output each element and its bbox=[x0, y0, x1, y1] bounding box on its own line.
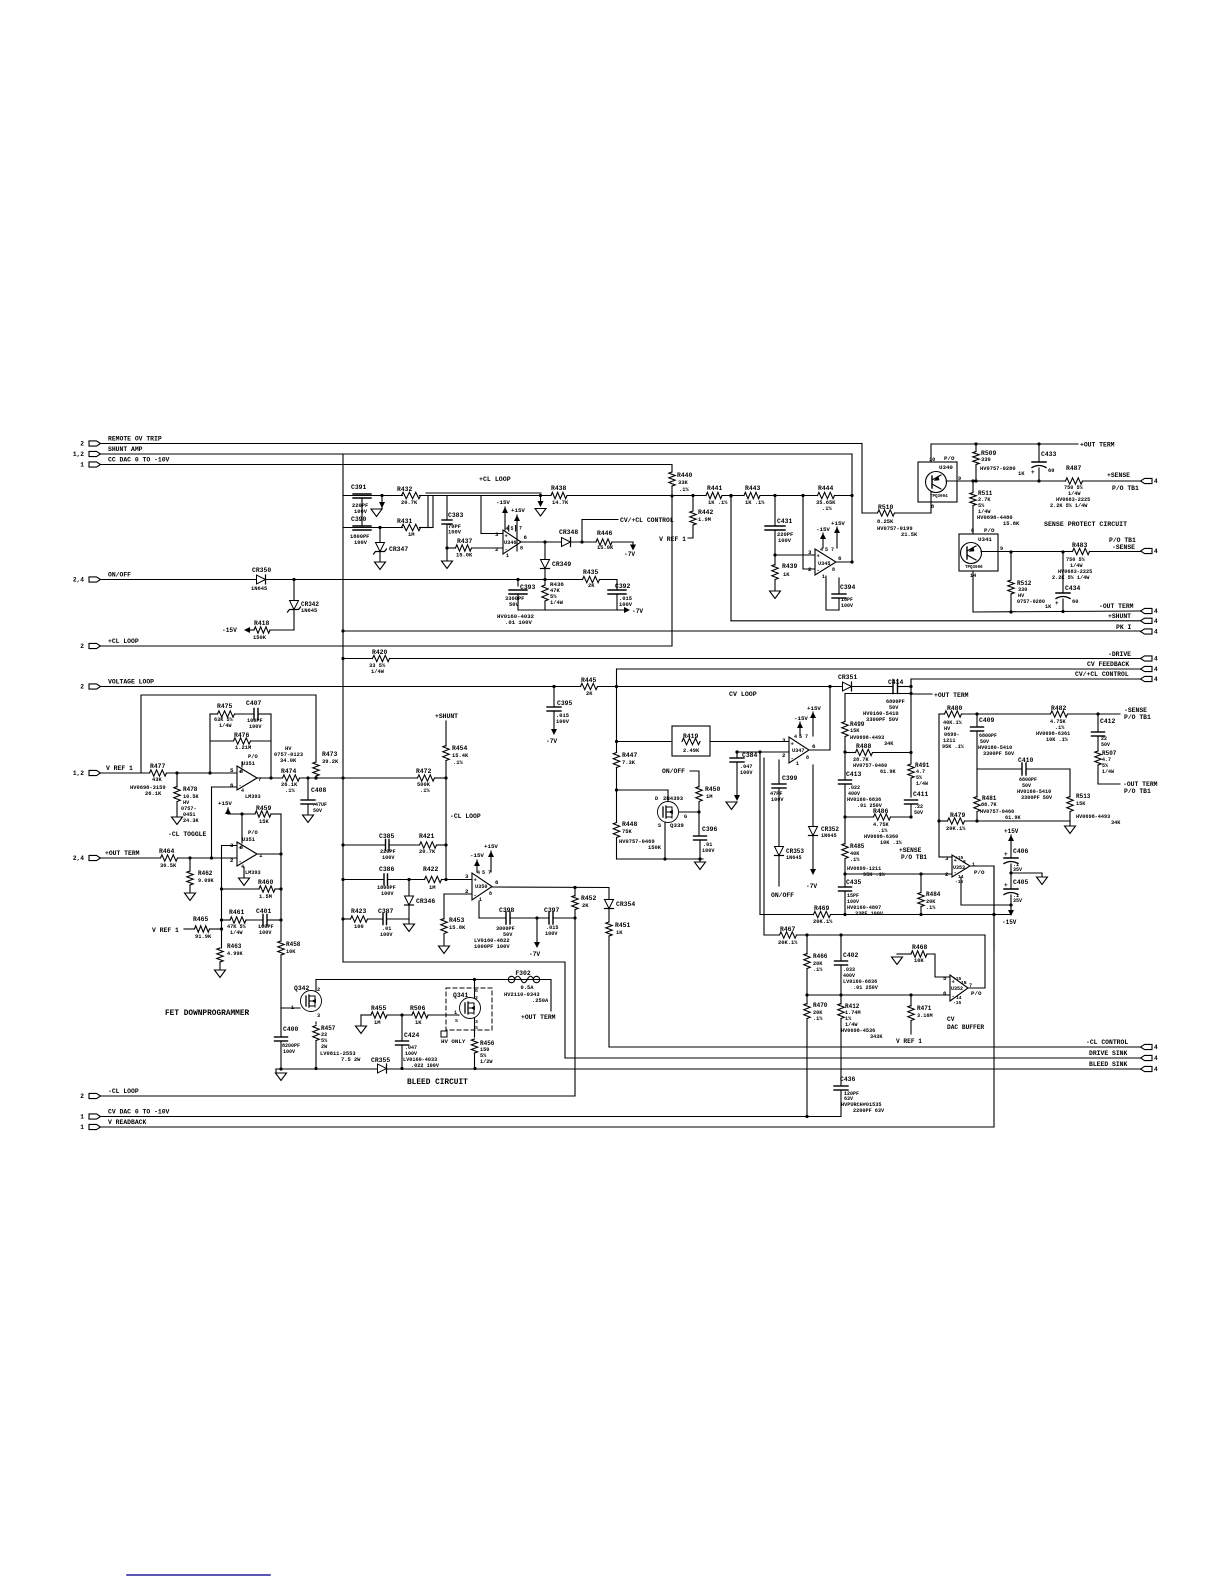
svg-text:1/4W: 1/4W bbox=[1102, 769, 1114, 775]
svg-text:R441: R441 bbox=[707, 485, 723, 492]
svg-text:-: - bbox=[952, 993, 955, 1000]
svg-text:7: 7 bbox=[805, 734, 808, 740]
svg-text:343K: 343K bbox=[870, 1034, 883, 1040]
svg-text:CR347: CR347 bbox=[389, 546, 408, 553]
svg-text:330: 330 bbox=[981, 457, 991, 463]
svg-text:9.09K: 9.09K bbox=[198, 878, 214, 884]
svg-text:REMOTE OV TRIP: REMOTE OV TRIP bbox=[108, 436, 162, 443]
svg-text:4: 4 bbox=[1154, 666, 1158, 673]
svg-text:10K: 10K bbox=[286, 949, 296, 955]
svg-text:R466: R466 bbox=[813, 953, 828, 960]
svg-text:R511: R511 bbox=[978, 490, 993, 497]
svg-text:2: 2 bbox=[80, 684, 84, 691]
svg-text:100V: 100V bbox=[771, 797, 784, 803]
svg-text:2: 2 bbox=[945, 871, 949, 878]
svg-text:1000PF 100V: 1000PF 100V bbox=[474, 944, 510, 950]
svg-text:6: 6 bbox=[230, 782, 234, 789]
svg-text:2: 2 bbox=[80, 441, 84, 448]
svg-text:1.5M: 1.5M bbox=[259, 894, 272, 900]
svg-text:5: 5 bbox=[511, 526, 514, 532]
svg-text:-15V: -15V bbox=[1002, 919, 1017, 926]
svg-text:1: 1 bbox=[822, 574, 825, 580]
svg-text:26.1K: 26.1K bbox=[145, 791, 162, 797]
svg-text:20K.1%: 20K.1% bbox=[813, 919, 833, 925]
svg-text:+: + bbox=[1004, 882, 1008, 889]
svg-text:21.5K: 21.5K bbox=[901, 532, 918, 538]
svg-text:7: 7 bbox=[519, 526, 522, 532]
svg-text:50V: 50V bbox=[1101, 742, 1110, 748]
svg-text:CR348: CR348 bbox=[559, 529, 578, 536]
svg-text:R453: R453 bbox=[449, 917, 465, 924]
svg-text:C435: C435 bbox=[846, 879, 862, 886]
svg-text:P/O: P/O bbox=[248, 830, 258, 836]
svg-text:60: 60 bbox=[1048, 468, 1054, 474]
svg-text:2: 2 bbox=[317, 987, 320, 993]
svg-text:-15V: -15V bbox=[794, 715, 808, 722]
svg-text:R432: R432 bbox=[397, 486, 413, 493]
svg-text:G: G bbox=[475, 988, 478, 994]
svg-text:R485: R485 bbox=[850, 843, 865, 850]
svg-text:P/O TB1: P/O TB1 bbox=[1112, 485, 1139, 492]
svg-text:R470: R470 bbox=[813, 1002, 828, 1009]
svg-text:R460: R460 bbox=[258, 879, 274, 886]
svg-text:15.4K: 15.4K bbox=[452, 753, 469, 759]
svg-text:R451: R451 bbox=[615, 922, 631, 929]
svg-text:2: 2 bbox=[475, 995, 478, 1001]
svg-text:R431: R431 bbox=[397, 518, 413, 525]
svg-text:6: 6 bbox=[943, 990, 947, 997]
svg-text:+15V: +15V bbox=[218, 800, 232, 807]
svg-text:P/O: P/O bbox=[974, 869, 985, 876]
svg-text:R461: R461 bbox=[229, 909, 245, 916]
svg-text:1/2W: 1/2W bbox=[480, 1059, 493, 1065]
svg-text:100V: 100V bbox=[740, 770, 753, 776]
svg-text:95K .1%: 95K .1% bbox=[942, 744, 965, 750]
svg-text:R471: R471 bbox=[917, 1005, 932, 1012]
svg-text:R475: R475 bbox=[217, 703, 233, 710]
svg-text:8: 8 bbox=[240, 769, 243, 775]
svg-text:LM393: LM393 bbox=[245, 794, 261, 800]
svg-text:2: 2 bbox=[495, 546, 499, 553]
svg-text:+SENSE: +SENSE bbox=[899, 847, 922, 854]
svg-text:2.2K 5% 1/4W: 2.2K 5% 1/4W bbox=[1050, 503, 1088, 509]
svg-text:2K: 2K bbox=[582, 903, 589, 909]
svg-text:+15V: +15V bbox=[484, 843, 498, 850]
svg-text:C414: C414 bbox=[888, 679, 904, 686]
svg-text:10K .1%: 10K .1% bbox=[1046, 737, 1069, 743]
svg-text:1K .1%: 1K .1% bbox=[708, 500, 728, 506]
svg-text:C383: C383 bbox=[448, 512, 464, 519]
svg-text:1K: 1K bbox=[1018, 471, 1025, 477]
svg-text:C434: C434 bbox=[1065, 585, 1081, 592]
svg-text:-15: -15 bbox=[953, 1000, 962, 1006]
svg-text:4: 4 bbox=[1154, 478, 1158, 485]
svg-text:1: 1 bbox=[80, 462, 84, 469]
svg-text:C402: C402 bbox=[843, 952, 859, 959]
svg-text:C395: C395 bbox=[557, 700, 573, 707]
svg-text:4: 4 bbox=[1154, 676, 1158, 683]
svg-text:R423: R423 bbox=[351, 908, 367, 915]
svg-text:33K: 33K bbox=[678, 480, 688, 486]
svg-text:8: 8 bbox=[806, 755, 809, 761]
svg-text:100V: 100V bbox=[259, 930, 272, 936]
svg-text:R446: R446 bbox=[597, 530, 613, 537]
svg-text:3: 3 bbox=[808, 549, 812, 556]
svg-text:-7V: -7V bbox=[529, 951, 540, 958]
svg-text:14.7K: 14.7K bbox=[552, 500, 569, 506]
svg-text:S: S bbox=[455, 1018, 458, 1024]
svg-text:5: 5 bbox=[482, 870, 485, 876]
svg-text:4: 4 bbox=[1154, 548, 1158, 555]
svg-text:100: 100 bbox=[354, 924, 364, 930]
svg-text:R452: R452 bbox=[581, 895, 597, 902]
svg-text:8: 8 bbox=[240, 845, 243, 851]
svg-text:R412: R412 bbox=[845, 1003, 860, 1010]
svg-text:3: 3 bbox=[317, 1013, 320, 1019]
svg-text:HV0757-0280: HV0757-0280 bbox=[980, 466, 1016, 472]
svg-text:1/4W: 1/4W bbox=[550, 600, 564, 606]
svg-text:-15V: -15V bbox=[496, 499, 510, 506]
svg-text:FET DOWNPROGRAMMER: FET DOWNPROGRAMMER bbox=[165, 1010, 250, 1018]
svg-text:R421: R421 bbox=[419, 833, 435, 840]
svg-text:C424: C424 bbox=[404, 1032, 420, 1039]
svg-text:C397: C397 bbox=[544, 907, 560, 914]
svg-text:R507: R507 bbox=[1102, 750, 1117, 757]
svg-text:R462: R462 bbox=[198, 870, 213, 877]
svg-text:U353: U353 bbox=[953, 865, 965, 871]
svg-text:1/4W: 1/4W bbox=[230, 930, 243, 936]
svg-text:Q339: Q339 bbox=[670, 822, 684, 829]
svg-text:+: + bbox=[1055, 600, 1059, 607]
svg-text:7.5 2W: 7.5 2W bbox=[341, 1057, 361, 1063]
svg-text:50V: 50V bbox=[313, 808, 322, 814]
svg-text:LM393: LM393 bbox=[245, 870, 261, 876]
svg-text:R509: R509 bbox=[981, 450, 997, 457]
svg-text:R480: R480 bbox=[947, 705, 963, 712]
svg-text:100V: 100V bbox=[283, 1049, 295, 1055]
svg-text:1M: 1M bbox=[706, 794, 712, 800]
svg-text:C396: C396 bbox=[702, 826, 718, 833]
svg-text:20K.1%: 20K.1% bbox=[778, 940, 798, 946]
svg-text:2: 2 bbox=[808, 566, 812, 573]
svg-text:.01 100V: .01 100V bbox=[505, 619, 532, 626]
svg-text:100V: 100V bbox=[381, 891, 394, 897]
svg-text:6: 6 bbox=[838, 555, 842, 562]
svg-text:R513: R513 bbox=[1076, 793, 1091, 800]
svg-text:V REF 1: V REF 1 bbox=[659, 536, 686, 543]
svg-text:SHUNT AMP: SHUNT AMP bbox=[108, 446, 143, 453]
svg-text:R454: R454 bbox=[452, 745, 468, 752]
svg-text:2,4: 2,4 bbox=[73, 577, 84, 584]
svg-text:61.9K: 61.9K bbox=[1005, 815, 1021, 821]
svg-text:15.8K: 15.8K bbox=[1003, 521, 1020, 527]
svg-text:.1%: .1% bbox=[285, 788, 295, 794]
svg-text:5: 5 bbox=[943, 975, 947, 982]
svg-text:R469: R469 bbox=[814, 905, 830, 912]
svg-text:15K: 15K bbox=[1076, 801, 1086, 807]
svg-text:1K: 1K bbox=[783, 572, 790, 578]
svg-text:10K: 10K bbox=[914, 958, 924, 964]
svg-text:1K: 1K bbox=[1045, 604, 1052, 610]
svg-text:C409: C409 bbox=[979, 717, 995, 724]
svg-text:4: 4 bbox=[1154, 1055, 1158, 1062]
svg-text:2.49K: 2.49K bbox=[683, 748, 700, 754]
svg-text:R482: R482 bbox=[1051, 705, 1067, 712]
svg-text:8.25K: 8.25K bbox=[877, 519, 894, 525]
svg-text:7: 7 bbox=[258, 776, 262, 783]
svg-text:U352: U352 bbox=[951, 986, 963, 992]
svg-text:G: G bbox=[684, 814, 687, 820]
svg-text:60: 60 bbox=[1072, 599, 1078, 605]
svg-text:DAC BUFFER: DAC BUFFER bbox=[947, 1024, 984, 1031]
svg-text:36.5K: 36.5K bbox=[160, 863, 177, 869]
svg-text:1/4W: 1/4W bbox=[371, 669, 385, 675]
svg-text:R440: R440 bbox=[677, 472, 693, 479]
svg-text:+OUT TERM: +OUT TERM bbox=[934, 692, 969, 699]
svg-text:.1%: .1% bbox=[679, 487, 689, 493]
svg-text:R488: R488 bbox=[856, 743, 872, 750]
svg-text:3: 3 bbox=[230, 842, 234, 849]
svg-text:2200PF 63V: 2200PF 63V bbox=[853, 1108, 885, 1114]
svg-text:R444: R444 bbox=[818, 485, 834, 492]
svg-text:V REF 1: V REF 1 bbox=[106, 765, 133, 772]
svg-text:C433: C433 bbox=[1041, 451, 1057, 458]
svg-text:R491: R491 bbox=[915, 762, 930, 769]
svg-text:U347: U347 bbox=[792, 748, 804, 754]
svg-text:.022 100V: .022 100V bbox=[411, 1063, 440, 1069]
svg-text:1.21M: 1.21M bbox=[235, 745, 251, 751]
svg-text:20.7K: 20.7K bbox=[419, 849, 436, 855]
svg-text:1N645: 1N645 bbox=[786, 855, 802, 861]
svg-text:35V: 35V bbox=[1013, 867, 1022, 873]
svg-text:-7V: -7V bbox=[546, 738, 557, 745]
svg-text:50V: 50V bbox=[914, 810, 923, 816]
svg-text:R456: R456 bbox=[480, 1040, 495, 1047]
svg-text:R481: R481 bbox=[982, 795, 997, 802]
svg-text:.01 250V: .01 250V bbox=[853, 985, 879, 991]
svg-text:R510: R510 bbox=[878, 504, 894, 511]
svg-text:+SHUNT: +SHUNT bbox=[1108, 613, 1131, 620]
svg-text:V READBACK: V READBACK bbox=[108, 1119, 147, 1126]
svg-text:+CL LOOP: +CL LOOP bbox=[479, 476, 511, 483]
svg-text:6: 6 bbox=[495, 879, 499, 886]
svg-text:U345: U345 bbox=[818, 561, 830, 567]
svg-text:CR355: CR355 bbox=[371, 1057, 390, 1064]
svg-text:C436: C436 bbox=[840, 1076, 856, 1083]
svg-text:3: 3 bbox=[465, 873, 469, 880]
svg-text:-OUT TERM: -OUT TERM bbox=[1123, 781, 1158, 788]
svg-text:CV/+CL CONTROL: CV/+CL CONTROL bbox=[1075, 671, 1129, 678]
svg-text:-SENSE: -SENSE bbox=[1124, 707, 1147, 714]
svg-text:CC DAC 0 TO -10V: CC DAC 0 TO -10V bbox=[108, 457, 170, 464]
svg-text:-CL LOOP: -CL LOOP bbox=[450, 813, 481, 820]
svg-text:61.9K: 61.9K bbox=[880, 769, 896, 775]
svg-text:R467: R467 bbox=[780, 926, 796, 933]
svg-text:20.7K: 20.7K bbox=[401, 500, 418, 506]
svg-text:100V: 100V bbox=[380, 932, 393, 938]
svg-text:2: 2 bbox=[230, 857, 234, 864]
svg-text:3300PF 50V: 3300PF 50V bbox=[866, 717, 899, 723]
svg-text:20K.1%: 20K.1% bbox=[946, 826, 966, 832]
svg-text:U351: U351 bbox=[242, 837, 255, 843]
svg-text:24.3K: 24.3K bbox=[183, 818, 199, 824]
svg-text:CR353: CR353 bbox=[786, 848, 804, 855]
svg-text:4: 4 bbox=[1154, 608, 1158, 615]
svg-text:2: 2 bbox=[80, 643, 84, 650]
svg-text:C398: C398 bbox=[499, 907, 515, 914]
svg-text:R468: R468 bbox=[912, 944, 928, 951]
svg-text:100V: 100V bbox=[702, 848, 715, 854]
svg-text:+SENSE: +SENSE bbox=[1107, 472, 1130, 479]
svg-text:U346: U346 bbox=[504, 540, 516, 546]
svg-text:1: 1 bbox=[259, 852, 263, 859]
svg-text:4: 4 bbox=[794, 734, 797, 740]
svg-text:5: 5 bbox=[825, 547, 828, 553]
svg-text:35V: 35V bbox=[1013, 898, 1022, 904]
svg-text:C401: C401 bbox=[256, 908, 272, 915]
svg-text:R420: R420 bbox=[372, 649, 388, 656]
svg-text:R478: R478 bbox=[183, 786, 198, 793]
svg-text:HV ONLY: HV ONLY bbox=[441, 1038, 466, 1045]
svg-text:2W: 2W bbox=[321, 1044, 328, 1050]
svg-text:P/O: P/O bbox=[248, 754, 258, 760]
svg-text:-15V: -15V bbox=[222, 627, 237, 634]
svg-text:R459: R459 bbox=[256, 805, 272, 812]
svg-text:100V: 100V bbox=[778, 538, 792, 544]
svg-text:-15: -15 bbox=[955, 879, 964, 885]
svg-text:C412: C412 bbox=[1100, 718, 1116, 725]
svg-text:R483: R483 bbox=[1072, 542, 1088, 549]
svg-text:C405: C405 bbox=[1013, 879, 1029, 886]
svg-text:100V: 100V bbox=[448, 530, 462, 536]
svg-text:R465: R465 bbox=[193, 916, 209, 923]
svg-text:43K: 43K bbox=[152, 777, 162, 783]
svg-text:-CL TOGGLE: -CL TOGGLE bbox=[168, 831, 207, 838]
svg-text:R512: R512 bbox=[1017, 580, 1032, 587]
svg-text:3: 3 bbox=[475, 1019, 478, 1025]
svg-text:8: 8 bbox=[832, 567, 835, 573]
svg-text:4: 4 bbox=[1154, 1066, 1158, 1073]
svg-text:CR351: CR351 bbox=[838, 674, 857, 681]
svg-text:R486: R486 bbox=[873, 808, 889, 815]
svg-text:+15V: +15V bbox=[511, 507, 525, 514]
svg-text:95K .1%: 95K .1% bbox=[863, 872, 886, 878]
svg-text:.1%: .1% bbox=[926, 905, 936, 911]
svg-text:10: 10 bbox=[929, 457, 935, 463]
svg-text:CV: CV bbox=[947, 1016, 955, 1023]
svg-text:-DRIVE: -DRIVE bbox=[1108, 651, 1131, 658]
svg-text:R439: R439 bbox=[782, 563, 798, 570]
svg-text:+OUT TERM: +OUT TERM bbox=[1080, 442, 1115, 449]
svg-text:S: S bbox=[658, 823, 661, 829]
svg-text:CR349: CR349 bbox=[552, 561, 571, 568]
svg-text:R422: R422 bbox=[423, 866, 439, 873]
svg-text:6: 6 bbox=[524, 534, 528, 541]
svg-text:CV DAC 0 TO -10V: CV DAC 0 TO -10V bbox=[108, 1109, 170, 1116]
svg-text:100V: 100V bbox=[382, 855, 395, 861]
svg-text:R477: R477 bbox=[150, 763, 166, 770]
svg-text:100V: 100V bbox=[545, 931, 558, 937]
svg-text:R463: R463 bbox=[227, 943, 242, 950]
svg-text:100V: 100V bbox=[619, 602, 633, 608]
svg-text:7: 7 bbox=[831, 547, 834, 553]
svg-text:SENSE PROTECT CIRCUIT: SENSE PROTECT CIRCUIT bbox=[1044, 521, 1127, 528]
svg-text:C394: C394 bbox=[840, 584, 856, 591]
svg-text:150K: 150K bbox=[253, 635, 267, 641]
svg-text:75K: 75K bbox=[622, 829, 632, 835]
svg-text:34K: 34K bbox=[884, 741, 894, 747]
svg-text:.250A: .250A bbox=[532, 998, 549, 1004]
svg-text:R506: R506 bbox=[410, 1005, 426, 1012]
svg-text:1.9M: 1.9M bbox=[698, 517, 711, 523]
svg-text:D: D bbox=[655, 796, 658, 802]
svg-text:34.0K: 34.0K bbox=[280, 758, 297, 764]
svg-text:100V: 100V bbox=[354, 540, 368, 546]
svg-text:3: 3 bbox=[782, 737, 786, 744]
svg-text:R457: R457 bbox=[321, 1025, 336, 1032]
svg-text:R455: R455 bbox=[371, 1005, 387, 1012]
svg-text:15K: 15K bbox=[259, 819, 269, 825]
svg-text:1,2: 1,2 bbox=[73, 770, 84, 777]
svg-text:100V: 100V bbox=[249, 724, 262, 730]
svg-text:F302: F302 bbox=[515, 970, 531, 977]
svg-text:2.2K 5% 1/4W: 2.2K 5% 1/4W bbox=[1052, 575, 1090, 581]
svg-text:R448: R448 bbox=[622, 821, 638, 828]
svg-text:4: 4 bbox=[1154, 618, 1158, 625]
svg-text:CR354: CR354 bbox=[616, 901, 635, 908]
svg-text:3300PF 50V: 3300PF 50V bbox=[983, 751, 1015, 757]
svg-text:.1%: .1% bbox=[822, 506, 832, 512]
svg-text:R484: R484 bbox=[926, 891, 941, 898]
svg-text:ON/OFF: ON/OFF bbox=[108, 572, 131, 579]
svg-text:Q341: Q341 bbox=[453, 992, 469, 999]
svg-text:-7V: -7V bbox=[806, 883, 817, 890]
svg-text:-7V: -7V bbox=[632, 608, 643, 615]
svg-text:C411: C411 bbox=[913, 791, 929, 798]
svg-text:1N645: 1N645 bbox=[251, 586, 267, 592]
svg-text:1K: 1K bbox=[616, 930, 623, 936]
svg-text:2,4: 2,4 bbox=[73, 855, 84, 862]
svg-text:-OUT TERM: -OUT TERM bbox=[1099, 603, 1134, 610]
svg-text:1: 1 bbox=[80, 1124, 84, 1131]
svg-text:-: - bbox=[817, 567, 820, 574]
svg-text:8: 8 bbox=[971, 528, 974, 534]
svg-text:Q342: Q342 bbox=[294, 985, 310, 992]
svg-text:ON/OFF: ON/OFF bbox=[662, 768, 685, 775]
svg-text:R436: R436 bbox=[550, 581, 564, 588]
svg-text:2: 2 bbox=[782, 752, 786, 759]
svg-text:C407: C407 bbox=[246, 700, 262, 707]
svg-text:15.0K: 15.0K bbox=[456, 553, 473, 559]
svg-text:4.99K: 4.99K bbox=[227, 951, 243, 957]
svg-text:R479: R479 bbox=[950, 812, 966, 819]
svg-text:7.3K: 7.3K bbox=[622, 760, 636, 766]
svg-text:+15V: +15V bbox=[1004, 828, 1019, 835]
svg-text:C385: C385 bbox=[379, 833, 395, 840]
svg-text:C387: C387 bbox=[378, 908, 394, 915]
svg-text:C390: C390 bbox=[351, 516, 367, 523]
svg-text:1M: 1M bbox=[408, 532, 414, 538]
svg-text:R447: R447 bbox=[622, 752, 638, 759]
svg-text:1/4W: 1/4W bbox=[916, 781, 928, 787]
svg-text:CR352: CR352 bbox=[821, 826, 839, 833]
svg-text:39.2K: 39.2K bbox=[322, 759, 339, 765]
svg-text:P/O TB1: P/O TB1 bbox=[1124, 714, 1151, 721]
svg-text:R435: R435 bbox=[583, 569, 599, 576]
svg-text:1,2: 1,2 bbox=[73, 451, 84, 458]
svg-text:4: 4 bbox=[1154, 656, 1158, 663]
svg-text:1K .1%: 1K .1% bbox=[745, 500, 765, 506]
